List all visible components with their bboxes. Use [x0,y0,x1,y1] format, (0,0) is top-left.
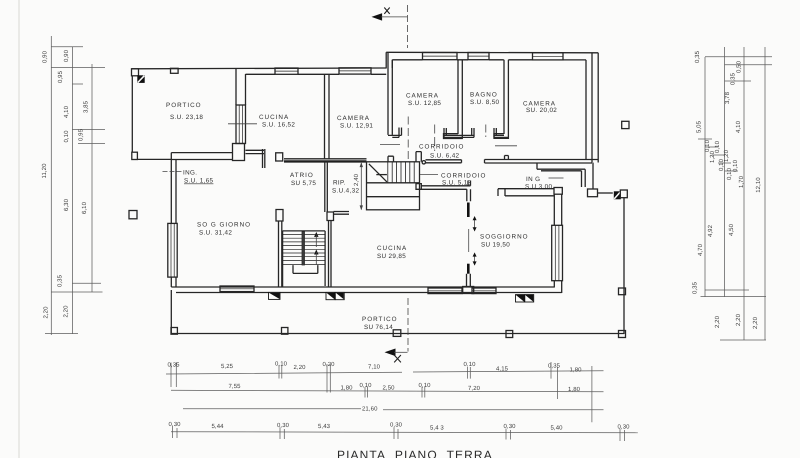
row4 labels [169,421,631,432]
wall: portico west wall [131,76,133,153]
svg-text:1,20: 1,20 [723,149,730,162]
svg-text:CORRIDOIO: CORRIDOIO [441,173,486,180]
svg-text:4,50: 4,50 [728,223,735,236]
stair 1 (rip) [367,162,420,210]
svg-text:0,10: 0,10 [419,382,432,389]
dimension arrow 2.40 stair height [360,162,363,210]
leader: corridoio5.13 [420,174,438,176]
window: bottom wall cucina29.85 [428,288,462,294]
svg-text:0,30: 0,30 [169,421,182,428]
bottom dim row2 line [171,390,604,392]
svg-text:0,35: 0,35 [57,274,64,287]
svg-text:0,50: 0,50 [736,60,743,73]
room labels [166,92,557,332]
window band on west wall [168,223,177,277]
wall: soggiorno31 west wall [171,153,176,224]
svg-text:SU 5,75: SU 5,75 [291,180,316,187]
lower portico east boundary [598,190,628,338]
leader: corridoio 6.42 left [380,144,400,146]
svg-text:S.U. 1,65: S.U. 1,65 [184,178,214,185]
svg-text:2,20: 2,20 [43,306,50,319]
svg-text:12,10: 12,10 [755,177,762,193]
svg-text:0,35: 0,35 [694,50,701,63]
jamb block at divider/bottom wall junction [463,287,474,294]
row4 ticks [173,426,625,441]
svg-text:ING.: ING. [183,170,197,177]
svg-text:0,90: 0,90 [63,49,70,62]
leader: ing 1.65 [163,170,182,172]
svg-text:2,20: 2,20 [735,313,742,326]
svg-text:S.U. 12,91: S.U. 12,91 [340,123,373,130]
wall: cucina/camera12.91 divider [325,74,330,159]
svg-text:0,30: 0,30 [618,424,631,431]
pillar: portico SW corner [132,152,138,159]
svg-text:4,10: 4,10 [63,105,70,118]
wall: ing north wall [537,163,585,187]
svg-text:5,25: 5,25 [221,363,234,370]
svg-text:2,20: 2,20 [294,364,307,371]
svg-text:0,10: 0,10 [275,361,288,368]
svg-text:S.U.4,32: S.U.4,32 [332,188,359,195]
svg-text:SO G GIORNO: SO G GIORNO [197,222,251,229]
door knob circle [422,161,425,164]
wall: building bottom wall double [171,287,561,293]
jamb: atrio/rip door bottom [327,212,334,221]
pillar: portico bottom center [393,330,401,337]
wall: bagno/camera20 divider [504,60,508,134]
svg-text:SU. 20,02: SU. 20,02 [526,107,557,114]
svg-text:S.U. 23,18: S.U. 23,18 [170,114,203,121]
svg-text:1,80: 1,80 [341,385,354,392]
svg-text:S.U. 31,42: S.U. 31,42 [199,230,232,237]
wall: cucina bottom-left stub [246,150,265,153]
svg-text:S.U. 12,85: S.U. 12,85 [408,100,441,107]
jamb: camera/bagno divider bottom L [444,134,463,139]
pillar: wall end jamb at cucina west [233,144,245,161]
svg-text:0,10: 0,10 [726,167,733,180]
svg-text:0,90: 0,90 [42,50,49,63]
svg-text:S.U. 6,42: S.U. 6,42 [430,153,460,160]
svg-text:1,80: 1,80 [570,367,583,374]
svg-text:SU 76,14: SU 76,14 [364,324,393,331]
wall: soggiorno top double wall (portico side) [171,153,232,160]
wall: corridoio5.13 south wall [421,181,470,190]
bottom dim row3 line + 21,60 [183,409,604,410]
bottom dim row4 line [171,432,638,433]
freestanding pillar west [129,211,137,219]
pillar: black/white diagonal marker NW [137,75,144,83]
svg-text:PORTICO: PORTICO [166,102,202,109]
svg-text:0,10: 0,10 [63,130,70,143]
wall: step up at x=386 [386,52,392,68]
svg-text:IN G: IN G [526,176,540,183]
bottom dim row1 line [166,371,604,374]
svg-text:2,20: 2,20 [714,315,721,328]
threshold marker 3 (pair) [516,295,534,302]
section line through corridor [407,117,409,161]
svg-text:0,20: 0,20 [323,361,336,368]
svg-text:ATRIO: ATRIO [290,172,314,179]
svg-text:CUCINA: CUCINA [377,245,407,252]
svg-text:0,95: 0,95 [78,128,85,141]
svg-text:4,10: 4,10 [735,120,742,133]
svg-text:0,35: 0,35 [692,281,699,294]
right dim labels (rotated) [692,50,763,329]
leader: ing 3.00 [549,177,564,179]
wall: camera12.85/bagno divider [458,60,462,134]
lower portico bottom edge [171,333,624,335]
wall: cucina west wall with window band [236,68,246,143]
threshold marker 1 (single) [269,292,281,299]
left dim labels (rotated) [41,49,90,318]
svg-text:4,92: 4,92 [707,224,714,237]
svg-text:1,80: 1,80 [568,386,581,393]
svg-text:2,40: 2,40 [353,173,360,186]
left dim vertical line 3 [91,64,93,292]
window: camera 12.91 top wall [339,68,371,74]
wall: divider cucina29.85/soggiorno19.50 [467,189,471,201]
black/white diagonal pillar NE of portico [614,191,621,199]
section line top: X marker [372,5,408,48]
svg-text:2,20: 2,20 [63,305,70,318]
portico east edge line [623,198,625,334]
svg-text:5,4 3: 5,4 3 [430,425,444,432]
wall: portico top wall [132,67,387,70]
svg-text:0,35: 0,35 [730,72,737,85]
svg-text:0,10: 0,10 [732,159,739,172]
svg-text:3,85: 3,85 [83,100,90,113]
door centerline dash: camera 12.85 [434,125,436,152]
left dim vertical line 1 [50,36,52,335]
row1 labels [168,361,583,374]
svg-text:5,40: 5,40 [551,425,564,432]
svg-text:S.U. 8,50: S.U. 8,50 [470,99,500,106]
section line bottom + X marker [385,298,409,362]
svg-text:PORTICO: PORTICO [362,316,398,323]
svg-text:CAMERA: CAMERA [337,115,370,122]
svg-text:BAGNO: BAGNO [470,92,498,99]
svg-text:0,95: 0,95 [57,70,64,83]
scan edge faint line [18,0,20,458]
left dim ticks [45,47,105,334]
svg-text:S.U 3,00: S.U 3,00 [525,184,552,191]
svg-text:0,10: 0,10 [464,361,477,368]
wall: camera12.85 west wall [388,52,392,135]
svg-text:S.U. 5,13: S.U. 5,13 [442,180,472,187]
wall: soggiorno19.50 top wall [498,189,554,196]
svg-text:SU 19,50: SU 19,50 [481,242,510,249]
window: bottom wall soggiorno31 [220,286,254,292]
svg-text:21,60: 21,60 [362,406,378,413]
svg-text:7,20: 7,20 [468,385,481,392]
jamb: L at bagno/camera20 divider [494,128,508,137]
vent rect on portico top wall [171,68,179,73]
svg-text:0,30: 0,30 [504,423,517,430]
wall: top wall inner line (cucina-camera1291 stretch) [246,73,387,75]
svg-text:6,10: 6,10 [81,201,88,214]
wall: ing door pillar + right wall with window [554,188,562,195]
svg-text:4,15: 4,15 [496,366,509,373]
jamb: T at camera/bagno divider [444,128,474,137]
svg-text:0,10: 0,10 [714,140,721,153]
svg-text:S.U. 16,52: S.U. 16,52 [262,122,295,129]
svg-text:RIP.: RIP. [333,180,346,187]
pillar: portico NW corner [132,69,139,76]
svg-text:0,10: 0,10 [704,139,711,152]
jamb stubs above corridor south wall [388,156,394,162]
stair 2 [283,231,326,287]
svg-text:SU 29,85: SU 29,85 [377,253,406,260]
wall: east outer wall double [586,53,598,163]
svg-text:4,70: 4,70 [697,243,704,256]
wall: portico bottom single line [137,158,171,160]
right dim vertical line 3 [743,47,745,340]
threshold marker 2 (pair) [326,292,344,299]
svg-text:7,55: 7,55 [229,383,242,390]
svg-text:0,35: 0,35 [168,362,181,369]
window: cucina top wall [275,68,298,74]
pillar: atrio wall west end [276,153,283,161]
wall: top wall high section inner segments [392,59,586,61]
svg-text:5,44: 5,44 [212,423,225,430]
row2 ticks [365,387,425,398]
svg-text:0,30: 0,30 [390,422,403,429]
window: bottom wall 2 [472,288,496,294]
svg-text:SOGGIORNO: SOGGIORNO [480,234,529,241]
svg-text:PIANTA PIANO TERRA: PIANTA PIANO TERRA [337,448,493,458]
wall: top wall high section (outer) [386,51,598,54]
wall: camera20/ing bottom wall [485,156,599,164]
svg-text:2,20: 2,20 [752,316,759,329]
left dim vertical line 2 [71,47,73,334]
door jamb: atrio west [263,149,265,168]
jamb: corridoio5.13 south wall west end [416,184,421,190]
thin door leaf line between arrows [468,229,470,252]
window: camera 12.85 [423,53,458,60]
svg-text:3,78: 3,78 [724,91,731,104]
wall: corridor south wall segment A [426,160,462,163]
wall: cucina29.85 west wall below atrio jamb [329,221,332,288]
svg-text:5,05: 5,05 [696,120,703,133]
leader: corridoio 6.42 right [495,145,517,147]
row1 ticks [171,362,592,422]
right dim vertical line 2 [724,47,726,297]
window: bagno [468,53,489,60]
wall: divider soggiorno31/cucina29.85 [276,210,283,222]
jamb: bagno/camera20 bottom L [494,134,508,139]
freestanding pillar NE [622,121,629,128]
svg-text:CORRIDOIO: CORRIDOIO [419,144,464,151]
svg-text:1,70: 1,70 [738,175,745,188]
jamb: camera12.85 door west [388,128,402,138]
window: camera 20.02 [533,53,564,60]
wall: east wall lower single + SE pillar [592,163,594,189]
row2 labels [229,382,581,393]
right dim vertical line 1 [704,57,706,297]
svg-text:0,35: 0,35 [548,363,561,370]
door centerline dash: bagno [485,125,487,138]
svg-text:0,30: 0,30 [277,422,290,429]
svg-text:5,43: 5,43 [318,423,331,430]
right dim vertical line 4 [764,47,766,340]
svg-text:11,20: 11,20 [41,163,48,179]
svg-text:0,10: 0,10 [360,382,373,389]
svg-text:6,30: 6,30 [63,198,70,211]
leader: cucina label [228,123,257,125]
svg-text:2,50: 2,50 [383,385,396,392]
svg-text:CUCINA: CUCINA [259,114,289,121]
heavy wall: atrio/camera12.91 bottom [284,160,367,162]
svg-text:CAMERA: CAMERA [406,93,439,100]
right dim ticks [698,57,772,340]
door swing arrows soggiorno19.50 [473,216,477,232]
atrio east wall [325,161,328,212]
rip bottom wall stub [334,212,350,215]
svg-text:7,10: 7,10 [368,364,381,371]
